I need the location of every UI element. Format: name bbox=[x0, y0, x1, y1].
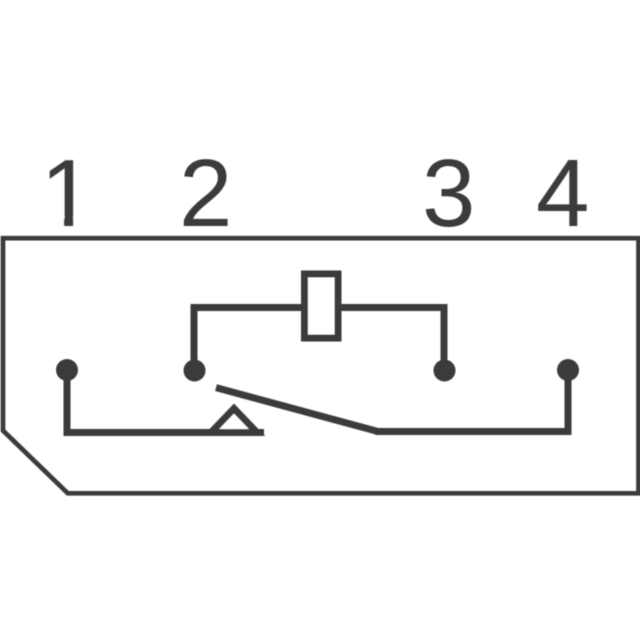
pin 3 terminal dot bbox=[434, 360, 456, 382]
stationary contact triangle bbox=[211, 409, 257, 433]
pin 4 terminal dot bbox=[557, 359, 579, 381]
svg-text:4: 4 bbox=[536, 140, 589, 247]
svg-text:2: 2 bbox=[179, 140, 232, 247]
svg-text:1: 1 bbox=[41, 140, 94, 247]
wire: pin 1 down and along bottom to contact bbox=[67, 370, 264, 433]
pin label 1 foot-serif mask (right) bbox=[73, 216, 91, 228]
coil element (relay coil rectangle) bbox=[305, 274, 339, 338]
pin 1 terminal dot bbox=[56, 359, 78, 381]
coil wire: pin 2 up, across to pin 3 bbox=[194, 308, 444, 371]
pin 2 terminal dot bbox=[184, 360, 206, 382]
pin label 1 foot-serif mask (left) bbox=[43, 216, 64, 228]
wire: arm bend along bottom up to pin 4 bbox=[375, 370, 568, 432]
switch arm (movable contact from pin 2) bbox=[216, 388, 378, 432]
svg-text:3: 3 bbox=[422, 140, 475, 247]
relay enclosure outline bbox=[3, 238, 639, 493]
